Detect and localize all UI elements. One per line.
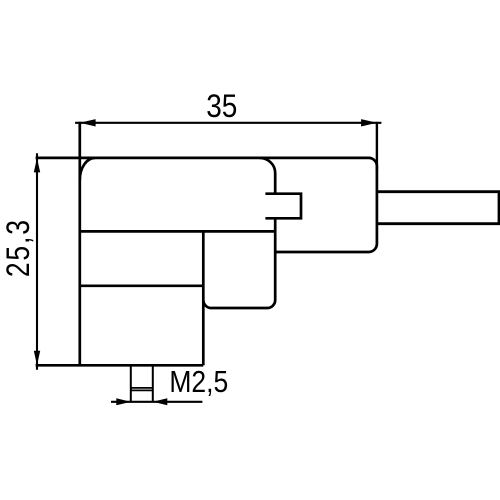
svg-text:35: 35 [206,90,237,125]
svg-text:25,3: 25,3 [1,218,37,277]
svg-text:M2,5: M2,5 [169,365,228,399]
